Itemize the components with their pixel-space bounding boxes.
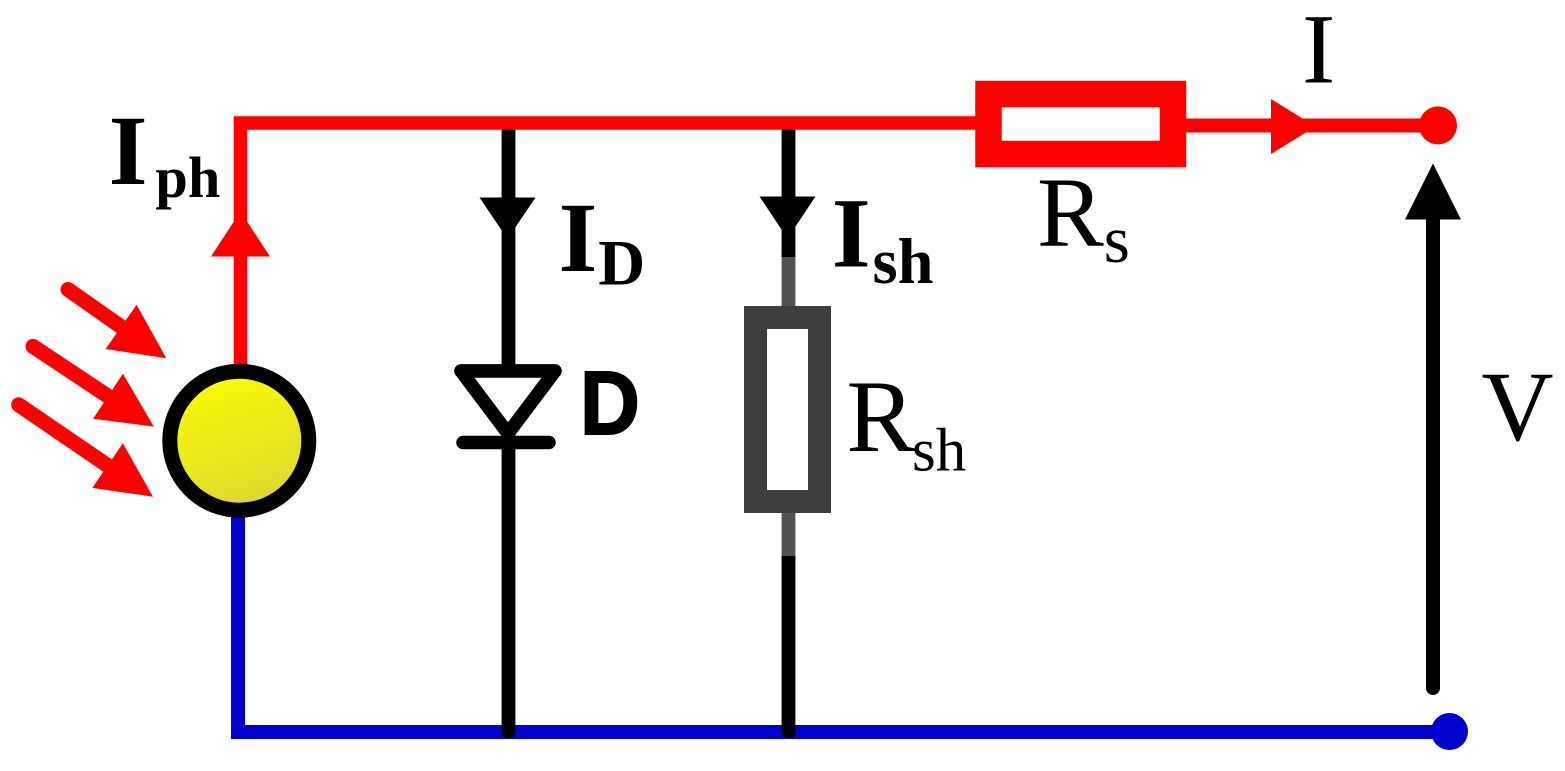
svg-text:sh: sh	[873, 226, 934, 297]
svg-text:s: s	[1104, 203, 1130, 277]
svg-text:R: R	[1037, 157, 1104, 268]
svg-text:R: R	[846, 360, 915, 474]
svg-text:sh: sh	[912, 418, 966, 485]
svg-text:I: I	[1302, 0, 1335, 105]
svg-text:V: V	[1481, 351, 1553, 462]
svg-text:ph: ph	[155, 145, 220, 210]
svg-text:D: D	[580, 354, 640, 454]
svg-text:I: I	[559, 182, 598, 293]
svg-text:I: I	[832, 178, 871, 289]
svg-text:I: I	[109, 95, 148, 206]
svg-text:D: D	[598, 227, 645, 299]
